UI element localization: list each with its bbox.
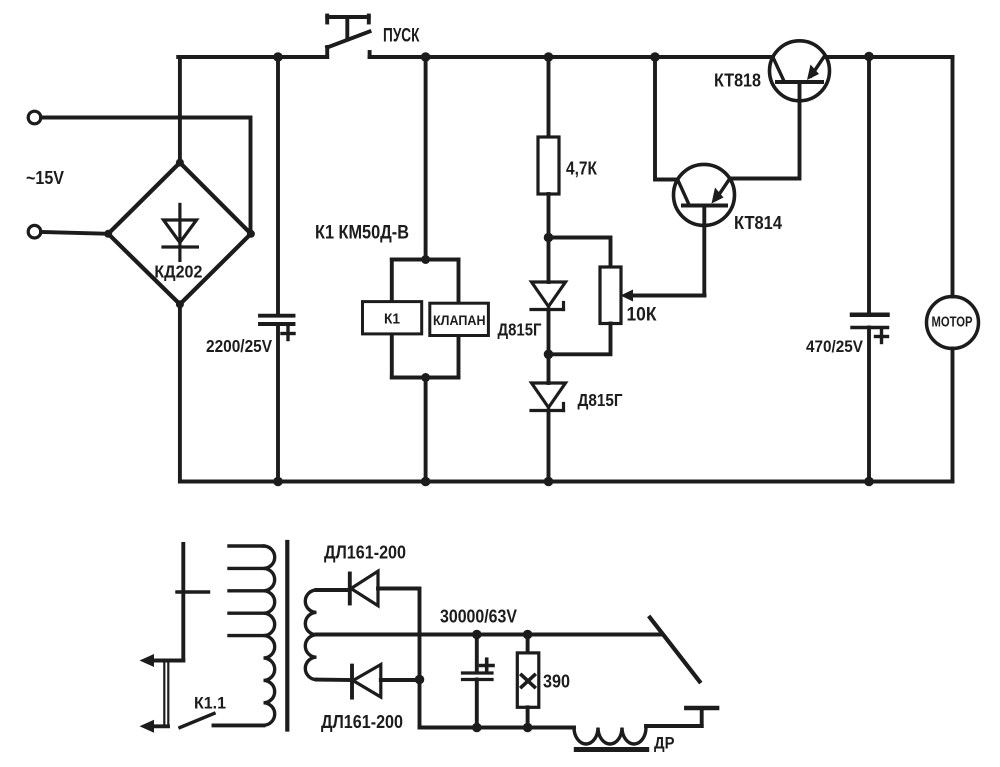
relay contact K1.1 fixed wire [181,544,185,661]
wire secondary top to upper diode [317,588,349,592]
plus sign of C1 [282,328,294,340]
transformer T1 core [285,542,289,730]
junction dot relay loop top [421,255,430,264]
svg-text:ДЛ161-200: ДЛ161-200 [321,712,403,732]
wire relay loop to bottom rail [424,378,428,482]
bottom wire left of choke [420,726,575,730]
svg-text:КТ814: КТ814 [734,213,782,233]
bottom wire right of choke [646,724,702,728]
switch contact stem [700,708,704,726]
wire KT814 collector branch [655,57,676,180]
wire lower diode output [381,678,420,682]
relay contact K1.1 armature double line [164,661,168,727]
svg-text:КД202: КД202 [154,262,202,282]
svg-text:МОТОР: МОТОР [932,315,973,331]
diode VD4 ДЛ161-200 lower [352,665,381,698]
relay coil K1 box [363,302,422,334]
bridge diode symbol [163,204,197,260]
junction dot 470uF branch on top rail [864,52,874,62]
svg-text:2200/25V: 2200/25V [206,336,272,356]
wire KT814 base to wiper [702,207,706,296]
potentiometer R2 10К body [600,267,621,324]
top rail right segment [827,55,953,59]
wire top rail to motor [951,57,955,297]
zener diode VD2 Д815Г [531,354,566,481]
svg-text:470/25V: 470/25V [806,337,864,356]
svg-text:К1 КМ50Д-В: К1 КМ50Д-В [315,223,409,244]
junction dot C3 on bottom wire [472,723,482,733]
wire KT814 emitter to KT818 base [730,84,800,179]
svg-text:30000/63V: 30000/63V [440,607,517,627]
plus sign of C3 [481,659,494,672]
junction dot C2 on bottom rail [864,477,874,487]
junction dot R3 branch on center line [523,630,533,640]
choke ДР winding [574,728,646,745]
junction dot relay branch on top rail [421,52,431,62]
svg-text:ДЛ161-200: ДЛ161-200 [324,543,406,563]
input terminal top [28,111,41,124]
switch blade [650,618,700,682]
capacitor C1 2200/25V [260,57,294,482]
transistor Q1 KT818 [770,41,830,101]
wire from bottom terminal to bridge left vertex [41,232,108,234]
svg-text:КЛАПАН: КЛАПАН [433,312,486,328]
wire secondary center tap line [317,633,663,637]
transformer T1 primary winding [229,546,275,725]
junction dot KT814 collector branch on top rail [650,52,660,62]
resistor R3 390 [517,635,539,728]
relay contact K1.1 fixed T-bar [177,590,209,593]
wire motor to bottom rail [951,349,955,482]
junction dot resistor branch on top rail [544,52,554,62]
wire potentiometer bottom to zener junction [549,324,611,355]
svg-text:К1.1: К1.1 [194,694,226,713]
input terminal bottom [28,225,41,238]
wire secondary bottom to lower diode [317,678,353,682]
junction dot C3 branch on center line [472,630,482,640]
svg-text:ДР: ДР [654,734,675,753]
wire from top terminal to bridge right vertex [41,118,251,234]
relay contact K1.1 movable lever [180,714,214,728]
relay loop bottom wire [392,376,459,380]
plus sign of C2 [876,331,888,343]
junction dot relay on bottom rail [421,477,431,487]
resistor R1 4,7К [538,57,559,238]
top rail middle segment [370,55,773,59]
wire relay branch vertical [424,57,428,260]
junction dot between zeners [544,350,554,360]
bottom rail [180,480,953,484]
svg-text:10К: 10К [627,305,657,326]
wire bridge top to rail [178,57,182,163]
wire bridge bottom to bottom rail [178,304,182,481]
svg-text:4,7К: 4,7К [566,159,598,179]
junction dot C1 on bottom rail [273,477,283,487]
svg-text:КТ818: КТ818 [714,71,761,91]
relay loop top wire [392,258,459,262]
X mark inside R3 [522,675,535,687]
choke ДР core bar [576,747,646,752]
wire from R1 junction to potentiometer top [549,238,611,268]
junction dot R3 on bottom wire [523,723,533,733]
top rail left segment [178,55,327,59]
svg-text:К1: К1 [384,311,400,328]
svg-text:390: 390 [543,672,570,692]
switch fixed contact bar [686,706,717,711]
svg-text:ПУСК: ПУСК [383,26,420,47]
relay loop left wire [390,260,394,378]
bridge vertex dots [104,159,255,309]
motor M1 [927,297,979,349]
potentiometer wiper arrow [621,290,705,302]
relay loop right wire [457,260,461,378]
pushbutton ПУСК [327,16,369,58]
bridge rectifier KД202 diamond [108,163,251,305]
relay contact K1.1 lower arrow [140,720,169,733]
svg-text:~15V: ~15V [26,168,64,188]
svg-text:Д815Г: Д815Г [498,320,542,340]
junction dot relay loop bottom [421,373,430,382]
wire upper diode output [378,589,420,680]
svg-text:Д815Г: Д815Г [578,390,623,410]
junction dot capacitor branch on top rail [273,52,283,62]
relay contact K1.1 upper arrow [140,654,184,667]
diode VD3 ДЛ161-200 upper [350,571,378,606]
capacitor C3 30000/63V [463,635,493,728]
wire diode junction to bottom line [418,680,422,728]
wire lever to primary winding [214,723,264,727]
junction dot zener on bottom rail [544,477,554,487]
junction dot below R1 [544,233,554,243]
capacitor C2 470/25V [852,57,888,482]
valve КЛАПАН box [430,303,489,335]
zener diode VD1 Д815Г [531,238,566,355]
transistor Q2 KT814 [674,164,735,225]
transformer T1 secondary winding [305,590,316,680]
junction dot diode outputs [415,675,425,685]
